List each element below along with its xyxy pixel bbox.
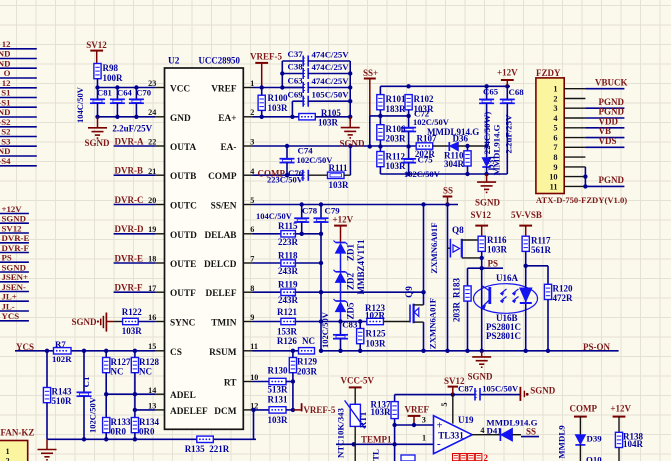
svg-text:24: 24 bbox=[148, 108, 156, 117]
svg-text:23: 23 bbox=[148, 79, 156, 88]
svg-text:3: 3 bbox=[553, 104, 557, 113]
svg-text:JSEN+: JSEN+ bbox=[2, 272, 29, 282]
svg-text:MMBZ4V1T1: MMBZ4V1T1 bbox=[356, 239, 366, 294]
svg-text:PS: PS bbox=[488, 259, 499, 269]
svg-text:R118: R118 bbox=[278, 250, 298, 260]
svg-text:221R: 221R bbox=[209, 444, 230, 454]
svg-text:C78: C78 bbox=[302, 206, 318, 216]
svg-text:103R: 103R bbox=[122, 326, 143, 336]
svg-text:D36: D36 bbox=[453, 133, 469, 143]
svg-text:DVR-A: DVR-A bbox=[115, 136, 144, 146]
svg-text:JL-: JL- bbox=[2, 301, 15, 311]
svg-text:11: 11 bbox=[250, 342, 258, 351]
svg-text:SV12: SV12 bbox=[86, 40, 107, 50]
svg-text:C65: C65 bbox=[483, 87, 499, 97]
svg-text:VDS: VDS bbox=[599, 136, 617, 146]
svg-text:ZXMN6A01F: ZXMN6A01F bbox=[428, 298, 438, 349]
svg-text:C63: C63 bbox=[288, 76, 304, 86]
svg-text:R183: R183 bbox=[452, 278, 462, 298]
svg-text:R131: R131 bbox=[268, 395, 288, 405]
svg-text:ZD1: ZD1 bbox=[346, 244, 356, 262]
svg-text:ZD2: ZD2 bbox=[346, 273, 356, 291]
svg-text:SGND: SGND bbox=[468, 372, 494, 382]
svg-text:SV12: SV12 bbox=[471, 210, 492, 220]
svg-text:C81: C81 bbox=[97, 88, 112, 98]
svg-text:R130: R130 bbox=[268, 366, 288, 376]
svg-text:3: 3 bbox=[422, 416, 426, 425]
svg-text:103R: 103R bbox=[366, 339, 387, 349]
svg-text:R134: R134 bbox=[139, 417, 159, 427]
svg-text:103R: 103R bbox=[318, 117, 339, 127]
svg-text:O: O bbox=[4, 68, 11, 78]
svg-text:13: 13 bbox=[148, 401, 156, 410]
svg-text:DVR-F: DVR-F bbox=[2, 243, 29, 253]
svg-text:0R0: 0R0 bbox=[139, 427, 155, 437]
svg-text:1: 1 bbox=[250, 79, 254, 88]
svg-text:474C/25V: 474C/25V bbox=[312, 62, 350, 72]
svg-text:R122: R122 bbox=[122, 307, 142, 317]
svg-text:FAN-KZ: FAN-KZ bbox=[1, 428, 35, 438]
svg-text:103R: 103R bbox=[487, 245, 508, 255]
svg-text:R127: R127 bbox=[111, 357, 131, 367]
svg-text:224C/50W): 224C/50W) bbox=[482, 112, 492, 155]
svg-text:4: 4 bbox=[480, 426, 484, 435]
svg-text:UCC28950: UCC28950 bbox=[199, 56, 241, 66]
svg-text:R7: R7 bbox=[55, 339, 66, 349]
svg-text:SGND: SGND bbox=[530, 385, 556, 395]
svg-text:FZDY: FZDY bbox=[536, 68, 561, 78]
svg-text:CS: CS bbox=[170, 348, 182, 358]
svg-text:S2: S2 bbox=[1, 127, 11, 137]
svg-text:100R: 100R bbox=[103, 73, 124, 83]
svg-text:472R: 472R bbox=[553, 293, 574, 303]
svg-text:C69: C69 bbox=[288, 89, 304, 99]
svg-text:DVR-E: DVR-E bbox=[115, 253, 144, 263]
svg-text:Q8: Q8 bbox=[452, 225, 464, 235]
svg-text:C75: C75 bbox=[418, 155, 434, 165]
svg-text:SGND: SGND bbox=[2, 214, 26, 224]
svg-text:MMDL914.G: MMDL914.G bbox=[486, 418, 537, 428]
svg-text:102C/50V: 102C/50V bbox=[413, 117, 450, 127]
svg-text:243R: 243R bbox=[278, 266, 299, 276]
svg-text:R121: R121 bbox=[277, 307, 297, 317]
svg-text:ND: ND bbox=[0, 49, 11, 59]
svg-text:183R: 183R bbox=[386, 104, 407, 114]
svg-text:203R: 203R bbox=[452, 302, 462, 323]
svg-text:103R: 103R bbox=[329, 180, 350, 190]
svg-text:10: 10 bbox=[250, 373, 258, 382]
svg-text:NC: NC bbox=[302, 336, 315, 346]
svg-text:NTC10K/343: NTC10K/343 bbox=[335, 407, 345, 457]
svg-text:VCC: VCC bbox=[170, 85, 190, 95]
svg-text:513R: 513R bbox=[268, 384, 289, 394]
svg-text:R98: R98 bbox=[103, 63, 119, 73]
svg-text:223C/50V: 223C/50V bbox=[267, 175, 304, 185]
svg-text:R106: R106 bbox=[386, 124, 406, 134]
svg-text:R126: R126 bbox=[277, 336, 297, 346]
svg-text:20: 20 bbox=[148, 196, 156, 205]
svg-text:DVR-C: DVR-C bbox=[115, 195, 144, 205]
svg-text:R143: R143 bbox=[52, 387, 72, 397]
svg-text:+12V: +12V bbox=[610, 404, 631, 414]
svg-text:R125: R125 bbox=[366, 329, 386, 339]
svg-text:+12V: +12V bbox=[2, 204, 23, 214]
svg-text:PGND: PGND bbox=[599, 175, 625, 185]
svg-text:U2: U2 bbox=[168, 57, 180, 67]
svg-text:7: 7 bbox=[553, 143, 557, 152]
svg-text:R102: R102 bbox=[414, 94, 434, 104]
svg-text:SS: SS bbox=[526, 427, 536, 437]
svg-text:1: 1 bbox=[6, 447, 10, 456]
svg-text:5: 5 bbox=[553, 124, 557, 133]
svg-text:ADEL: ADEL bbox=[170, 391, 196, 401]
svg-text:R117: R117 bbox=[531, 236, 551, 246]
svg-text:JL+: JL+ bbox=[2, 292, 17, 302]
svg-text:VREF: VREF bbox=[211, 85, 237, 95]
svg-text:SGND: SGND bbox=[2, 262, 26, 272]
svg-text:15: 15 bbox=[148, 342, 156, 351]
svg-text:12: 12 bbox=[2, 39, 11, 49]
svg-text:304R: 304R bbox=[444, 159, 465, 169]
svg-text:PS2801C: PS2801C bbox=[486, 331, 521, 341]
svg-text:2: 2 bbox=[484, 453, 489, 461]
svg-text:SS/EN: SS/EN bbox=[211, 202, 237, 212]
svg-text:VDD: VDD bbox=[599, 116, 619, 126]
svg-text:ADELEF: ADELEF bbox=[170, 407, 208, 417]
svg-text:561R: 561R bbox=[531, 245, 552, 255]
svg-text:NC: NC bbox=[139, 367, 152, 377]
svg-text:22: 22 bbox=[148, 138, 156, 147]
svg-text:6: 6 bbox=[553, 134, 557, 143]
svg-text:10: 10 bbox=[549, 173, 557, 182]
svg-text:R112: R112 bbox=[386, 152, 406, 162]
svg-text:R133: R133 bbox=[111, 417, 131, 427]
svg-text:105C/50V: 105C/50V bbox=[482, 383, 519, 393]
svg-text:TEMP1: TEMP1 bbox=[361, 434, 392, 444]
svg-text:D39: D39 bbox=[587, 433, 603, 443]
svg-text:COMP: COMP bbox=[208, 172, 237, 182]
svg-text:ND: ND bbox=[0, 59, 11, 69]
svg-text:OUTD: OUTD bbox=[170, 231, 197, 241]
svg-text:EA-: EA- bbox=[220, 143, 236, 153]
svg-text:9: 9 bbox=[250, 313, 254, 322]
svg-text:ND: ND bbox=[0, 107, 11, 117]
svg-text:12: 12 bbox=[2, 78, 11, 88]
svg-text:103R: 103R bbox=[268, 103, 289, 113]
svg-text:510R: 510R bbox=[52, 396, 73, 406]
svg-text:SV12: SV12 bbox=[2, 223, 23, 233]
svg-text:2.2uF/25V: 2.2uF/25V bbox=[112, 124, 152, 134]
svg-text:243R: 243R bbox=[278, 295, 299, 305]
svg-text:5: 5 bbox=[440, 402, 449, 406]
svg-text:PS: PS bbox=[2, 253, 12, 263]
svg-text:6: 6 bbox=[250, 225, 254, 234]
svg-text:DVR-F: DVR-F bbox=[115, 283, 143, 293]
svg-text:8: 8 bbox=[553, 153, 557, 162]
svg-text:203R: 203R bbox=[297, 366, 318, 376]
svg-text:103R: 103R bbox=[268, 415, 289, 425]
svg-text:D31: D31 bbox=[486, 155, 496, 170]
svg-text:SS+: SS+ bbox=[363, 68, 378, 78]
svg-text:TL: TL bbox=[371, 449, 381, 461]
svg-text:DELAB: DELAB bbox=[204, 231, 236, 241]
svg-text:11: 11 bbox=[550, 182, 558, 191]
svg-text:S3: S3 bbox=[1, 136, 11, 146]
svg-text:R111: R111 bbox=[329, 163, 349, 173]
svg-text:SYNC: SYNC bbox=[170, 319, 195, 329]
svg-text:SGND: SGND bbox=[85, 138, 111, 148]
svg-text:C38: C38 bbox=[288, 62, 304, 72]
svg-text:DCM: DCM bbox=[214, 407, 236, 417]
svg-text:102R: 102R bbox=[52, 354, 72, 364]
svg-text:VREF-5: VREF-5 bbox=[250, 52, 282, 62]
svg-text:R135: R135 bbox=[185, 444, 205, 454]
svg-text:203R: 203R bbox=[386, 134, 407, 144]
svg-text:PGND: PGND bbox=[599, 97, 625, 107]
svg-text:102C/50V: 102C/50V bbox=[88, 396, 98, 433]
svg-text:19: 19 bbox=[148, 225, 156, 234]
svg-text:OUTF: OUTF bbox=[170, 289, 196, 299]
svg-text:OUTB: OUTB bbox=[170, 172, 196, 182]
svg-text:-S2: -S2 bbox=[0, 117, 11, 127]
svg-text:474C/25V: 474C/25V bbox=[312, 76, 350, 86]
svg-text:ZXMN6A01F: ZXMN6A01F bbox=[429, 222, 439, 273]
svg-text:SS: SS bbox=[443, 186, 453, 196]
svg-text:102C/50V: 102C/50V bbox=[320, 311, 330, 348]
svg-text:DELCD: DELCD bbox=[204, 260, 237, 270]
svg-text:JSEN-: JSEN- bbox=[2, 282, 27, 292]
svg-text:C87: C87 bbox=[458, 384, 474, 394]
svg-text:R116: R116 bbox=[487, 235, 507, 245]
svg-text:4: 4 bbox=[553, 114, 557, 123]
svg-text:7: 7 bbox=[250, 255, 254, 264]
svg-text:2: 2 bbox=[6, 457, 10, 461]
svg-text:C1: C1 bbox=[81, 377, 91, 388]
svg-text:103R: 103R bbox=[371, 407, 392, 417]
svg-text:-S1: -S1 bbox=[0, 98, 11, 108]
svg-text:MMDL9: MMDL9 bbox=[557, 425, 567, 459]
svg-text:SGND: SGND bbox=[72, 317, 98, 327]
svg-text:YCS: YCS bbox=[2, 311, 20, 321]
svg-text:VREF: VREF bbox=[405, 405, 430, 415]
svg-text:104R: 104R bbox=[623, 439, 644, 449]
svg-text:R120: R120 bbox=[553, 284, 573, 294]
svg-text:ATX-D-750-FZDY(V1.0): ATX-D-750-FZDY(V1.0) bbox=[536, 195, 627, 205]
svg-text:C68: C68 bbox=[509, 87, 525, 97]
svg-text:DVR-D: DVR-D bbox=[115, 224, 144, 234]
svg-text:VREF-5: VREF-5 bbox=[303, 405, 335, 415]
svg-text:1: 1 bbox=[553, 85, 557, 94]
svg-text:OUTC: OUTC bbox=[170, 202, 197, 212]
svg-text:RT1: RT1 bbox=[358, 412, 368, 428]
svg-text:GND: GND bbox=[170, 114, 191, 124]
svg-text:474C/25V: 474C/25V bbox=[312, 50, 350, 60]
svg-text:S1: S1 bbox=[1, 88, 10, 98]
svg-text:9: 9 bbox=[553, 163, 557, 172]
svg-text:SGND: SGND bbox=[475, 198, 501, 208]
svg-text:2: 2 bbox=[250, 108, 254, 117]
svg-text:102R: 102R bbox=[365, 311, 386, 321]
svg-text:16: 16 bbox=[148, 313, 156, 322]
svg-text:PGND: PGND bbox=[599, 107, 625, 117]
svg-text:0R0: 0R0 bbox=[111, 427, 127, 437]
svg-text:EA+: EA+ bbox=[218, 114, 236, 124]
svg-text:PS-ON: PS-ON bbox=[583, 342, 611, 352]
svg-text:ND: ND bbox=[0, 146, 11, 156]
svg-text:R119: R119 bbox=[278, 280, 298, 290]
svg-text:R100: R100 bbox=[268, 93, 288, 103]
svg-text:R129: R129 bbox=[297, 357, 317, 367]
svg-text:104C/50V: 104C/50V bbox=[75, 86, 85, 123]
svg-text:RSUM: RSUM bbox=[209, 348, 237, 358]
svg-text:DELEF: DELEF bbox=[206, 289, 237, 299]
svg-text:U19: U19 bbox=[458, 415, 474, 425]
svg-text:2.2uF/25V: 2.2uF/25V bbox=[503, 114, 513, 154]
svg-text:VBUCK: VBUCK bbox=[595, 77, 628, 87]
svg-text:R128: R128 bbox=[139, 357, 159, 367]
svg-text:VB: VB bbox=[599, 126, 612, 136]
svg-text:RT: RT bbox=[224, 379, 237, 389]
svg-text:+12V: +12V bbox=[333, 214, 354, 224]
svg-text:OUTA: OUTA bbox=[170, 143, 196, 153]
svg-text:U16A: U16A bbox=[496, 273, 518, 283]
svg-text:DVR-B: DVR-B bbox=[115, 166, 144, 176]
svg-text:ZD5: ZD5 bbox=[346, 302, 356, 320]
svg-text:VCC-5V: VCC-5V bbox=[341, 376, 375, 386]
svg-text:C64: C64 bbox=[117, 88, 133, 98]
svg-text:-S4: -S4 bbox=[0, 156, 11, 166]
svg-text:Q10: Q10 bbox=[586, 455, 602, 461]
svg-text:TMIN: TMIN bbox=[211, 319, 237, 329]
svg-text:C70: C70 bbox=[136, 88, 151, 98]
svg-text:C74: C74 bbox=[298, 146, 314, 156]
svg-text:NC: NC bbox=[111, 367, 124, 377]
svg-text:105C/50V: 105C/50V bbox=[312, 90, 350, 100]
svg-text:C37: C37 bbox=[288, 49, 304, 59]
svg-text:COMP: COMP bbox=[570, 404, 598, 414]
svg-text:18: 18 bbox=[148, 255, 156, 264]
svg-text:5: 5 bbox=[250, 196, 254, 205]
svg-text:OUTE: OUTE bbox=[170, 260, 196, 270]
svg-text:2: 2 bbox=[553, 94, 557, 103]
svg-text:1: 1 bbox=[422, 434, 426, 443]
svg-text:153R: 153R bbox=[277, 326, 298, 336]
svg-text:Q9: Q9 bbox=[404, 286, 414, 298]
svg-text:DVR-E: DVR-E bbox=[2, 233, 30, 243]
svg-text:R101: R101 bbox=[386, 94, 406, 104]
svg-text:223R: 223R bbox=[278, 237, 299, 247]
svg-text:104C/50V: 104C/50V bbox=[256, 211, 293, 221]
svg-text:+12V: +12V bbox=[497, 68, 518, 78]
svg-text:TL331: TL331 bbox=[438, 430, 464, 440]
svg-text:3: 3 bbox=[250, 138, 254, 147]
svg-text:5V-VSB: 5V-VSB bbox=[511, 210, 542, 220]
svg-text:SGND: SGND bbox=[340, 139, 366, 149]
